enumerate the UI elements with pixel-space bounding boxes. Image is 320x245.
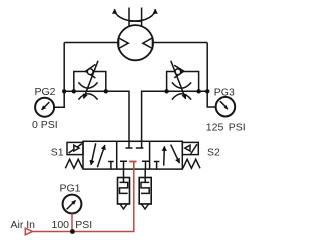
air inlet arrow (Air In) [25,228,32,235]
exhaust muffler right [139,169,151,209]
flow control valve FCV2 (right, with bypass check) [167,61,199,100]
svg-text:0 PSI: 0 PSI [32,119,58,131]
solenoid S1 [67,142,83,154]
wire FCV1 line to valve port A [64,91,129,141]
junction node PG1 tap [70,229,75,234]
junction node FCV2 left [164,89,168,93]
svg-text:Air In: Air In [11,219,36,231]
svg-text:125: 125 [206,121,224,133]
flow control valve FCV1 (left, with bypass check) [74,61,106,100]
svg-text:PSI: PSI [229,121,246,133]
junction node FCV1 right [104,89,108,93]
wire PG3 stem [207,91,215,107]
wire left vertical to FCV1 line [63,43,65,92]
wire motor right port [153,42,207,44]
air motor M1 (bidirectional) [118,8,153,61]
valve V1 body (5/3 closed center) [83,141,182,169]
spring left [65,159,82,168]
junction node FCV1 left [72,89,76,93]
junction node A-PG2 tap [62,89,66,93]
spring right [183,159,200,168]
gauge PG1 [63,195,82,214]
valve P port (pressurized, red) [129,162,136,170]
junction node FCV2 right [196,89,200,93]
wire right vertical to FCV2 line [206,43,208,92]
bidirectional rotation arrow [115,9,156,21]
svg-text:PG2: PG2 [35,86,56,98]
wire supply line P (red) [32,162,133,232]
junction node B-PG3 tap [205,89,209,93]
svg-text:PSI: PSI [75,219,92,231]
wire PG2 stem [54,91,64,107]
svg-text:S2: S2 [207,146,220,158]
svg-text:S1: S1 [51,146,64,158]
exhaust muffler left [118,169,130,209]
svg-text:100: 100 [52,219,70,231]
valve left box flow arrows [91,143,114,169]
svg-text:PG3: PG3 [214,86,235,98]
wire FCV2 line to valve port B [142,91,208,141]
valve right box flow arrows [154,145,180,170]
solenoid S2 [182,142,198,154]
wire motor left port [64,42,118,44]
gauge PG2 [35,98,54,117]
valve center box blocked ports [120,141,149,169]
gauge PG3 [216,97,236,117]
svg-text:PG1: PG1 [60,183,81,195]
wire PG1 stem (red) [71,213,73,231]
